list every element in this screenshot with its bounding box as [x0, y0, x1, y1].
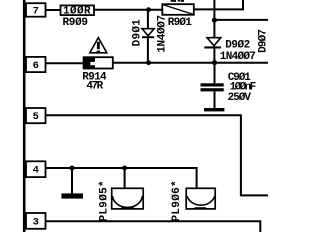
node junction top of D901	[146, 7, 151, 12]
resistor R901 box with diagonal	[162, 4, 194, 15]
pin 4	[26, 161, 46, 177]
svg-text:R9Ø1: R9Ø1	[168, 17, 192, 29]
node junction D902 bottom / C901 top	[212, 60, 217, 65]
lamp PL905	[112, 188, 144, 209]
pin 7	[26, 3, 46, 17]
svg-text:7: 7	[33, 5, 39, 17]
wire branch to right edge	[214, 19, 268, 21]
svg-text:5: 5	[33, 111, 39, 123]
lamp PL906	[186, 188, 215, 209]
svg-text:1ØØR: 1ØØR	[63, 5, 91, 17]
wire to PL905	[124, 168, 126, 188]
warning triangle above R914	[90, 38, 107, 53]
svg-text:D9Ø7: D9Ø7	[258, 30, 268, 53]
pin 6	[26, 57, 46, 72]
wire vertical from top edge to D902	[213, 0, 215, 38]
node junction D901 bottom	[146, 60, 151, 65]
text fragment cut at top edge	[171, 0, 184, 2]
node junction D902 top branch	[212, 18, 217, 23]
svg-text:1N4ØØ7: 1N4ØØ7	[220, 51, 256, 63]
pin 3	[26, 213, 46, 229]
wire R914 to right edge (net y63)	[113, 62, 268, 64]
svg-text:4: 4	[33, 165, 39, 177]
svg-text:PL9Ø6*: PL9Ø6*	[171, 180, 183, 221]
wire pin3 to bottom right edge	[46, 221, 261, 232]
wire R909 to R901	[94, 9, 162, 11]
svg-text:3: 3	[33, 217, 39, 229]
wire pin4 net	[46, 168, 197, 188]
pin 5	[26, 108, 46, 123]
wire connector bus vertical line	[23, 0, 26, 232]
resistor R914 safety box	[84, 57, 113, 68]
svg-text:D9Ø1: D9Ø1	[132, 19, 144, 47]
svg-text:D9Ø2: D9Ø2	[225, 40, 249, 52]
resistor R909 box 100R	[61, 5, 95, 17]
svg-text:PL9Ø5*: PL9Ø5*	[98, 180, 110, 221]
capacitor C901	[201, 63, 225, 112]
svg-text:1N4ØØ7: 1N4ØØ7	[157, 15, 169, 53]
svg-text:R9Ø9: R9Ø9	[63, 17, 88, 29]
svg-text:47R: 47R	[86, 81, 103, 93]
wire R901 to top right corner	[194, 0, 243, 9]
wire pin6 to R914	[46, 62, 84, 64]
node junction ground branch	[70, 166, 75, 171]
ground	[61, 168, 83, 199]
wire pin5 to lower right edge	[46, 115, 269, 195]
diode D901	[142, 10, 154, 63]
svg-text:25ØV: 25ØV	[228, 92, 252, 104]
wire pin7 to R909	[46, 9, 61, 11]
svg-text:6: 6	[33, 60, 39, 72]
diode D902	[204, 38, 221, 63]
node junction PL905 branch	[122, 166, 127, 171]
